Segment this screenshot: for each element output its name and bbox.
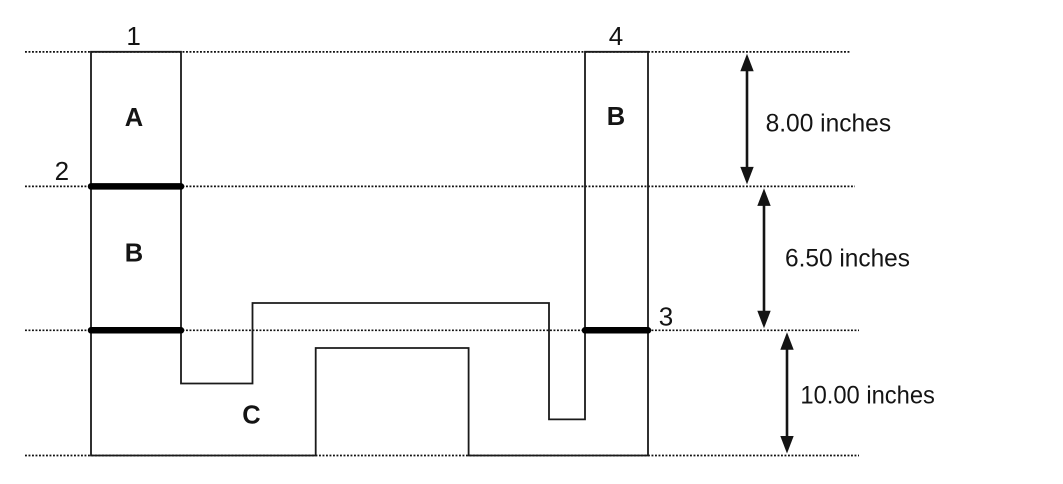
svg-text:4: 4 [609,21,623,51]
svg-text:A: A [125,104,143,132]
svg-text:1: 1 [126,21,140,51]
svg-text:3: 3 [659,302,673,332]
svg-text:6.50 inches: 6.50 inches [785,245,910,273]
svg-text:B: B [125,240,143,268]
svg-text:10.00 inches: 10.00 inches [800,382,935,410]
svg-text:C: C [242,402,260,430]
svg-text:2: 2 [55,156,69,186]
svg-text:8.00 inches: 8.00 inches [766,110,892,138]
svg-text:B: B [607,103,625,131]
